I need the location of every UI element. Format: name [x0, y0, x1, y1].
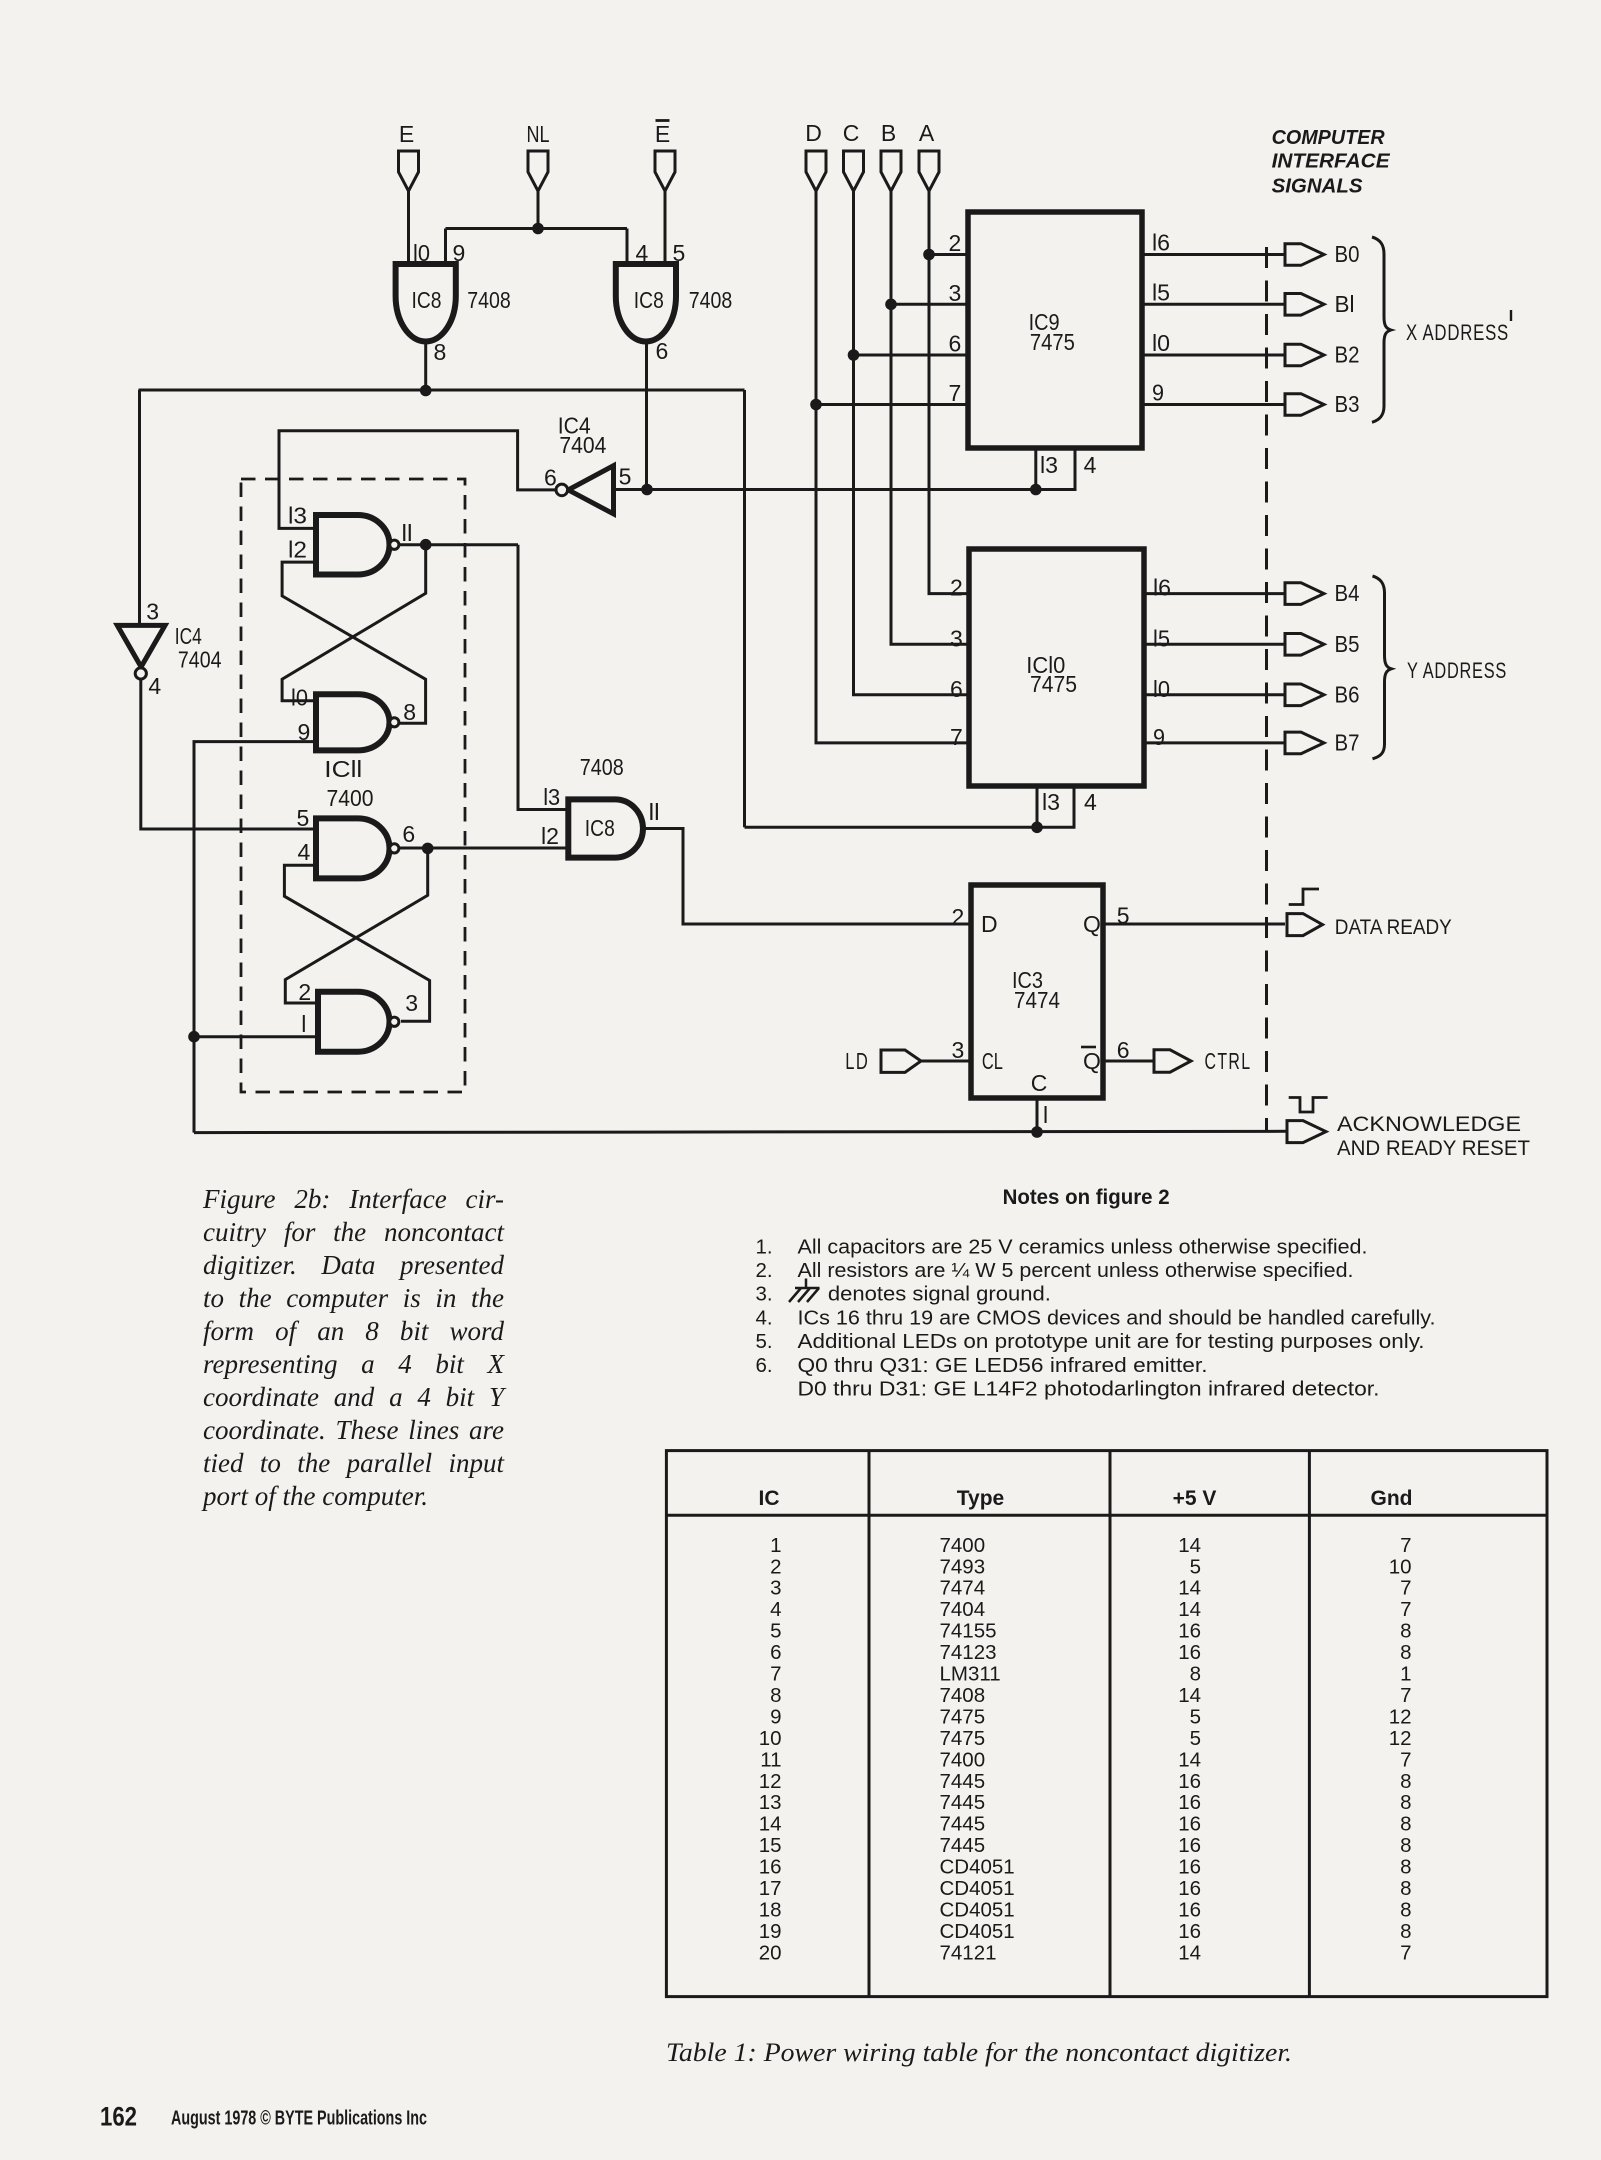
and-gate IC8b 7408 — [616, 264, 676, 342]
svg-text:18: 18 — [759, 1898, 782, 1921]
svg-text:7474: 7474 — [940, 1577, 986, 1600]
svg-text:SIGNALS: SIGNALS — [1272, 175, 1363, 198]
svg-text:l3: l3 — [1042, 789, 1060, 815]
svg-text:l2: l2 — [541, 823, 559, 849]
svg-text:9: 9 — [770, 1705, 781, 1728]
junction C to acknowledge bus — [1031, 1126, 1043, 1138]
svg-text:8: 8 — [770, 1684, 781, 1707]
svg-text:CD4051: CD4051 — [940, 1877, 1015, 1900]
svg-text:11: 11 — [760, 1748, 781, 1771]
svg-text:12: 12 — [1389, 1727, 1412, 1750]
svg-text:7404: 7404 — [559, 432, 606, 458]
svg-text:12: 12 — [1389, 1705, 1412, 1728]
svg-text:7445: 7445 — [940, 1770, 986, 1793]
svg-text:7475: 7475 — [1030, 329, 1075, 355]
wire C stub to IC9 — [854, 354, 969, 357]
wire E to IC8a pin 10 — [407, 191, 410, 265]
connector B — [881, 151, 901, 191]
junction IC11c out — [422, 843, 434, 855]
junction B to IC9 — [885, 299, 897, 311]
svg-text:14: 14 — [1178, 1684, 1201, 1707]
svg-text:6: 6 — [544, 465, 557, 491]
svg-text:16: 16 — [1178, 1898, 1201, 1921]
svg-text:10: 10 — [1389, 1555, 1412, 1578]
svg-text:7408: 7408 — [689, 287, 733, 313]
svg-text:2: 2 — [952, 904, 965, 930]
svg-text:7408: 7408 — [467, 287, 511, 313]
svg-text:20: 20 — [759, 1941, 782, 1964]
inverter IC4 pin5-6 — [568, 466, 613, 514]
nand-gate IC11b pins 10-9-8 — [316, 694, 389, 750]
connector NL — [528, 151, 548, 191]
table column line 3 — [1308, 1451, 1311, 1997]
bubble IC11a pins 13-12-11 — [390, 540, 399, 549]
table column line 1 — [868, 1451, 871, 1997]
svg-text:Type: Type — [957, 1487, 1004, 1510]
svg-text:9: 9 — [1152, 380, 1164, 406]
svg-text:8: 8 — [1400, 1898, 1411, 1921]
svg-text:2: 2 — [949, 230, 962, 256]
svg-text:6: 6 — [950, 676, 963, 702]
svg-text:8: 8 — [1400, 1813, 1411, 1836]
svg-text:3: 3 — [952, 1037, 965, 1063]
connector C — [844, 151, 864, 191]
svg-text:16: 16 — [1178, 1920, 1201, 1943]
nand-gate IC11c pins 5-4-6 — [316, 818, 390, 878]
wire IC8c output to IC3 D — [643, 829, 971, 925]
svg-text:l: l — [1043, 1102, 1048, 1128]
svg-text:B4: B4 — [1335, 580, 1360, 606]
wire D stub to IC9 — [816, 403, 968, 406]
svg-text:l0: l0 — [413, 240, 430, 266]
table 1 frame — [666, 1451, 1547, 1997]
wire IC9 output l0 — [1142, 354, 1285, 357]
svg-text:14: 14 — [1178, 1577, 1201, 1600]
wire IC11a out to IC8c pin13 — [518, 545, 568, 810]
svg-text:D0 thru D31: GE L14F2 photoda: D0 thru D31: GE L14F2 photodarlington in… — [798, 1378, 1380, 1401]
svg-text:Q0 thru Q31: GE LED56 infrare: Q0 thru Q31: GE LED56 infrared emitter. — [798, 1354, 1208, 1377]
svg-text:8: 8 — [1400, 1620, 1411, 1643]
svg-text:7: 7 — [770, 1663, 781, 1686]
wire bus to IC11d pin1 — [194, 1035, 318, 1038]
wire A stub to IC9 — [929, 253, 968, 256]
svg-text:l0: l0 — [291, 685, 308, 711]
output connector ACKNOWLEDGE — [1287, 1121, 1326, 1143]
wire IC3 C pin — [1036, 1098, 1039, 1132]
svg-text:7400: 7400 — [327, 785, 374, 811]
wire top feedback to left inverter — [138, 390, 141, 625]
svg-text:8: 8 — [403, 699, 416, 725]
nand-gate IC11d pins 2-1-3 — [318, 992, 390, 1052]
wire LD to CL — [921, 1060, 971, 1063]
svg-text:6: 6 — [402, 821, 415, 847]
svg-text:15: 15 — [759, 1834, 782, 1857]
wire cross-couple IC11c out to IC11d pin2 — [285, 848, 427, 1003]
bubble IC11b pins 10-9-8 — [390, 718, 399, 727]
svg-text:CL: CL — [982, 1048, 1003, 1074]
svg-text:CD4051: CD4051 — [940, 1898, 1015, 1921]
svg-text:4: 4 — [636, 240, 649, 266]
junction A to IC9 — [923, 249, 935, 261]
svg-text:6: 6 — [1117, 1037, 1130, 1063]
svg-text:A: A — [919, 120, 935, 146]
svg-text:B0: B0 — [1335, 241, 1360, 267]
output connector CTRL — [1154, 1050, 1191, 1072]
brace X address — [1372, 237, 1391, 422]
svg-text:16: 16 — [1178, 1834, 1201, 1857]
latch IC9 7475 — [968, 212, 1142, 448]
svg-text:12: 12 — [759, 1770, 782, 1793]
svg-text:IC8: IC8 — [585, 815, 615, 841]
svg-text:LD: LD — [845, 1048, 869, 1074]
wire IC3 Q output — [1103, 923, 1285, 926]
svg-text:IC: IC — [759, 1487, 780, 1510]
svg-text:16: 16 — [1178, 1770, 1201, 1793]
svg-text:ACKNOWLEDGE: ACKNOWLEDGE — [1337, 1112, 1521, 1136]
svg-text:7: 7 — [1400, 1598, 1411, 1621]
svg-text:6: 6 — [949, 331, 962, 357]
svg-text:Additional LEDs on prototype u: Additional LEDs on prototype unit are fo… — [798, 1330, 1425, 1353]
svg-text:16: 16 — [1178, 1877, 1201, 1900]
wire NL bus — [446, 227, 628, 230]
svg-text:3: 3 — [146, 598, 159, 624]
svg-text:2: 2 — [950, 575, 963, 601]
connector E-bar — [655, 151, 675, 191]
junction D to IC9 — [810, 399, 822, 411]
wire IC11b pin 9 to bus — [194, 742, 316, 1133]
svg-text:7445: 7445 — [940, 1813, 986, 1836]
svg-text:8: 8 — [1400, 1641, 1411, 1664]
wire C vertical — [854, 191, 970, 695]
svg-text:X ADDRESS: X ADDRESS — [1406, 320, 1509, 345]
waveform negative pulse — [1289, 1098, 1328, 1113]
wire B vertical — [891, 191, 969, 644]
latch IC10 7475 — [969, 549, 1144, 786]
svg-text:9: 9 — [453, 240, 466, 266]
svg-text:7404: 7404 — [940, 1598, 986, 1621]
svg-text:7475: 7475 — [940, 1727, 986, 1750]
svg-text:8: 8 — [434, 339, 447, 365]
output connector B5 — [1285, 634, 1324, 656]
inverter IC4 left bubble — [135, 668, 146, 679]
svg-text:5: 5 — [619, 464, 632, 490]
svg-text:ICs 16 thru 19 are CMOS device: ICs 16 thru 19 are CMOS devices and shou… — [798, 1306, 1436, 1329]
svg-text:7445: 7445 — [940, 1791, 986, 1814]
connector D — [806, 151, 826, 191]
svg-text:+5 V: +5 V — [1173, 1487, 1217, 1510]
svg-text:7475: 7475 — [1030, 671, 1077, 697]
svg-text:9: 9 — [1153, 724, 1165, 750]
wire left inverter output to IC11c pin5 — [141, 680, 316, 830]
svg-text:Q: Q — [1083, 1048, 1101, 1074]
svg-text:7: 7 — [1400, 1941, 1411, 1964]
svg-text:B2: B2 — [1335, 342, 1360, 368]
bubble IC11c pins 5-4-6 — [390, 844, 399, 853]
svg-text:E: E — [399, 121, 414, 147]
inverter IC4 bubble — [556, 484, 568, 496]
junction NL — [532, 223, 544, 235]
junction IC8a out — [420, 385, 432, 397]
svg-text:6.: 6. — [756, 1354, 773, 1377]
svg-text:IC8: IC8 — [412, 287, 442, 313]
flip-flop IC3 7474 — [971, 885, 1103, 1098]
svg-text:E: E — [655, 121, 670, 147]
output connector B3 — [1285, 394, 1324, 416]
svg-text:All capacitors are 25 V cerami: All capacitors are 25 V ceramics unless … — [798, 1236, 1368, 1259]
wire inverter input — [614, 488, 1036, 491]
svg-text:16: 16 — [1178, 1813, 1201, 1836]
svg-text:7493: 7493 — [940, 1555, 986, 1578]
svg-text:14: 14 — [1178, 1941, 1201, 1964]
wire long horizontal from IC8a pin 8 — [139, 389, 745, 392]
svg-text:5.: 5. — [756, 1330, 773, 1353]
svg-text:5: 5 — [673, 240, 686, 266]
svg-text:1: 1 — [770, 1534, 781, 1557]
svg-text:5: 5 — [1190, 1555, 1201, 1578]
svg-text:ICll: ICll — [324, 756, 362, 782]
svg-text:l0: l0 — [1153, 676, 1170, 702]
svg-text:CD4051: CD4051 — [940, 1856, 1015, 1879]
svg-text:16: 16 — [759, 1856, 782, 1879]
svg-text:16: 16 — [1178, 1620, 1201, 1643]
svg-text:6: 6 — [770, 1641, 781, 1664]
svg-text:7400: 7400 — [940, 1748, 986, 1771]
svg-text:NL: NL — [527, 121, 550, 147]
svg-text:1.: 1. — [756, 1236, 773, 1259]
svg-text:7408: 7408 — [940, 1684, 986, 1707]
dashed outline IC11 latch group — [241, 479, 465, 1092]
svg-text:l6: l6 — [1152, 230, 1170, 256]
svg-text:74155: 74155 — [940, 1620, 997, 1643]
footnote tick — [1510, 310, 1512, 321]
svg-text:7: 7 — [1400, 1577, 1411, 1600]
wire IC11a output — [399, 543, 518, 546]
junction IC11a out — [420, 539, 432, 551]
svg-text:7: 7 — [949, 380, 962, 406]
figure caption text block — [203, 1183, 504, 1513]
svg-text:5: 5 — [1190, 1727, 1201, 1750]
wire acknowledge bus — [194, 1131, 1287, 1132]
svg-text:14: 14 — [759, 1813, 782, 1836]
wire B stub to IC9 — [891, 303, 968, 306]
svg-text:Table 1: Power wiring table fo: Table 1: Power wiring table for the nonc… — [666, 2038, 1292, 2067]
svg-text:l0: l0 — [1152, 330, 1170, 356]
svg-text:LM311: LM311 — [940, 1663, 1001, 1686]
wire IC10 output l0 — [1144, 693, 1285, 696]
svg-text:l5: l5 — [1152, 279, 1170, 305]
wire IC9 output 9 — [1142, 403, 1285, 406]
and-gate IC8c 7408 — [568, 799, 643, 857]
wire IC9 output l5 — [1142, 303, 1285, 306]
svg-text:4: 4 — [298, 839, 311, 865]
svg-text:7408: 7408 — [580, 754, 624, 780]
svg-text:74121: 74121 — [940, 1941, 997, 1964]
svg-text:162: 162 — [100, 2102, 137, 2132]
svg-text:4: 4 — [1084, 452, 1097, 478]
svg-text:AND READY RESET: AND READY RESET — [1337, 1136, 1530, 1160]
connector LD — [881, 1050, 921, 1072]
wire IC10 pin 13 — [1036, 786, 1039, 827]
svg-text:C: C — [843, 120, 860, 146]
svg-text:16: 16 — [1178, 1791, 1201, 1814]
svg-text:D: D — [805, 120, 822, 146]
svg-text:7400: 7400 — [940, 1534, 986, 1557]
svg-text:8: 8 — [1400, 1791, 1411, 1814]
svg-text:8: 8 — [1400, 1877, 1411, 1900]
output connector B6 — [1285, 684, 1324, 706]
wire cross-couple IC11d out to IC11c pin4 — [284, 865, 429, 1021]
svg-text:14: 14 — [1178, 1598, 1201, 1621]
svg-text:13: 13 — [759, 1791, 782, 1814]
svg-text:10: 10 — [759, 1727, 782, 1750]
svg-text:3: 3 — [770, 1577, 781, 1600]
junction bus to IC11d pin1 — [188, 1031, 200, 1043]
svg-text:Q: Q — [1083, 911, 1101, 937]
nand-gate IC11a pins 13-12-11 — [316, 515, 390, 575]
svg-text:COMPUTER: COMPUTER — [1272, 126, 1385, 149]
svg-text:4: 4 — [1084, 789, 1097, 815]
svg-text:1: 1 — [1400, 1663, 1411, 1686]
svg-text:IC4: IC4 — [175, 623, 202, 649]
svg-text:CTRL: CTRL — [1205, 1048, 1252, 1074]
wire vertical enable to IC10 — [743, 390, 746, 827]
output connector B2 — [1285, 344, 1324, 366]
wire IC9 pin 13 — [1034, 448, 1037, 490]
wire IC8b output to inverter junction — [645, 341, 648, 490]
svg-text:INTERFACE: INTERFACE — [1272, 150, 1391, 173]
wire D vertical — [816, 191, 969, 743]
brace Y address — [1373, 576, 1392, 759]
svg-text:8: 8 — [1190, 1663, 1201, 1686]
svg-text:16: 16 — [1178, 1856, 1201, 1879]
junction inverter input — [641, 484, 653, 496]
svg-text:7: 7 — [950, 724, 963, 750]
svg-text:B: B — [881, 120, 896, 146]
wire IC10 output l5 — [1144, 643, 1285, 646]
table column line 2 — [1109, 1451, 1112, 1997]
connector A — [919, 151, 939, 191]
svg-text:16: 16 — [1178, 1641, 1201, 1664]
output connector Bl — [1285, 294, 1324, 316]
svg-text:7: 7 — [1400, 1534, 1411, 1557]
svg-text:19: 19 — [759, 1920, 782, 1943]
table header rule — [666, 1514, 1547, 1517]
svg-text:August 1978 © BYTE Publication: August 1978 © BYTE Publications Inc — [171, 2108, 427, 2130]
svg-text:C: C — [1031, 1070, 1048, 1096]
output connector DATA READY — [1287, 914, 1323, 936]
connector E — [399, 151, 419, 191]
wire IC11c output to IC8c pin12 — [399, 847, 568, 850]
junction C to IC9 — [848, 349, 860, 361]
svg-text:l: l — [301, 1011, 306, 1037]
wire enable horizontal to IC10 pins 13-4 — [745, 826, 1038, 829]
svg-text:B6: B6 — [1335, 681, 1360, 707]
svg-text:ll: ll — [402, 520, 413, 546]
wire IC9 output l6 — [1142, 253, 1285, 256]
svg-text:5: 5 — [770, 1620, 781, 1643]
svg-text:8: 8 — [1400, 1834, 1411, 1857]
wire inverter output feedback — [279, 431, 556, 529]
svg-text:5: 5 — [297, 805, 310, 831]
wire Qbar out — [1103, 1060, 1154, 1063]
inverter IC4 pin3-4 — [117, 625, 165, 667]
waveform rising edge — [1289, 889, 1319, 905]
output connector B0 — [1285, 244, 1324, 266]
svg-text:7474: 7474 — [1014, 987, 1060, 1013]
svg-text:ll: ll — [649, 799, 660, 825]
svg-text:2.: 2. — [756, 1259, 773, 1282]
svg-text:14: 14 — [1178, 1748, 1201, 1771]
wire E-bar to IC8b pin 5 — [664, 191, 667, 265]
svg-text:All resistors are ¼ W 5 percen: All resistors are ¼ W 5 percent unless o… — [798, 1259, 1354, 1282]
svg-text:8: 8 — [1400, 1920, 1411, 1943]
wire cross-couple IC11b out to IC11a pin12 — [282, 562, 426, 723]
junction IC9 enable — [1030, 484, 1042, 496]
svg-text:8: 8 — [1400, 1770, 1411, 1793]
svg-text:3.: 3. — [756, 1283, 773, 1306]
ground symbol note 3 — [805, 1279, 808, 1289]
svg-text:3: 3 — [950, 625, 963, 651]
svg-text:B5: B5 — [1335, 631, 1360, 657]
svg-text:l3: l3 — [288, 503, 307, 529]
svg-text:CD4051: CD4051 — [940, 1920, 1015, 1943]
bubble IC11d pins 2-1-3 — [390, 1017, 399, 1026]
junction IC10 enable — [1031, 822, 1043, 834]
svg-text:14: 14 — [1178, 1534, 1201, 1557]
svg-text:DATA READY: DATA READY — [1335, 915, 1452, 939]
svg-text:5: 5 — [1190, 1705, 1201, 1728]
wire cross-couple IC11a out to IC11b pin10 — [282, 545, 426, 701]
svg-text:l2: l2 — [288, 537, 307, 563]
svg-text:3: 3 — [405, 990, 418, 1016]
svg-text:7475: 7475 — [940, 1705, 986, 1728]
svg-text:6: 6 — [656, 338, 669, 364]
svg-text:8: 8 — [1400, 1856, 1411, 1879]
svg-text:4: 4 — [148, 673, 161, 699]
svg-text:IC8: IC8 — [634, 287, 664, 313]
svg-text:3: 3 — [949, 280, 962, 306]
dashed interface boundary line — [1265, 247, 1268, 1132]
output connector B4 — [1285, 583, 1324, 605]
svg-text:74123: 74123 — [940, 1641, 997, 1664]
svg-text:2: 2 — [770, 1555, 781, 1578]
svg-text:l3: l3 — [543, 784, 560, 810]
svg-text:denotes signal ground.: denotes signal ground. — [828, 1283, 1051, 1306]
output connector B7 — [1285, 732, 1324, 754]
svg-text:4: 4 — [770, 1598, 781, 1621]
wire IC10 output l6 — [1144, 592, 1285, 595]
svg-text:Bl: Bl — [1335, 291, 1355, 317]
svg-text:7: 7 — [1400, 1748, 1411, 1771]
svg-text:Gnd: Gnd — [1371, 1487, 1413, 1510]
svg-text:7445: 7445 — [940, 1834, 986, 1857]
svg-text:D: D — [981, 911, 998, 937]
svg-text:Notes on figure 2: Notes on figure 2 — [1003, 1186, 1170, 1209]
wire A vertical — [929, 191, 969, 594]
svg-text:17: 17 — [759, 1877, 782, 1900]
wire IC8a output — [424, 341, 427, 392]
svg-text:2: 2 — [298, 979, 311, 1005]
svg-text:B3: B3 — [1335, 391, 1360, 417]
svg-text:Y ADDRESS: Y ADDRESS — [1407, 658, 1507, 683]
wire NL stem — [537, 191, 540, 229]
svg-text:B7: B7 — [1335, 729, 1360, 755]
svg-text:l3: l3 — [1040, 452, 1058, 478]
wire IC10 output 9 — [1144, 741, 1285, 744]
svg-text:7: 7 — [1400, 1684, 1411, 1707]
wire IC9 pin 4 — [1036, 448, 1075, 490]
svg-text:7404: 7404 — [178, 646, 222, 672]
